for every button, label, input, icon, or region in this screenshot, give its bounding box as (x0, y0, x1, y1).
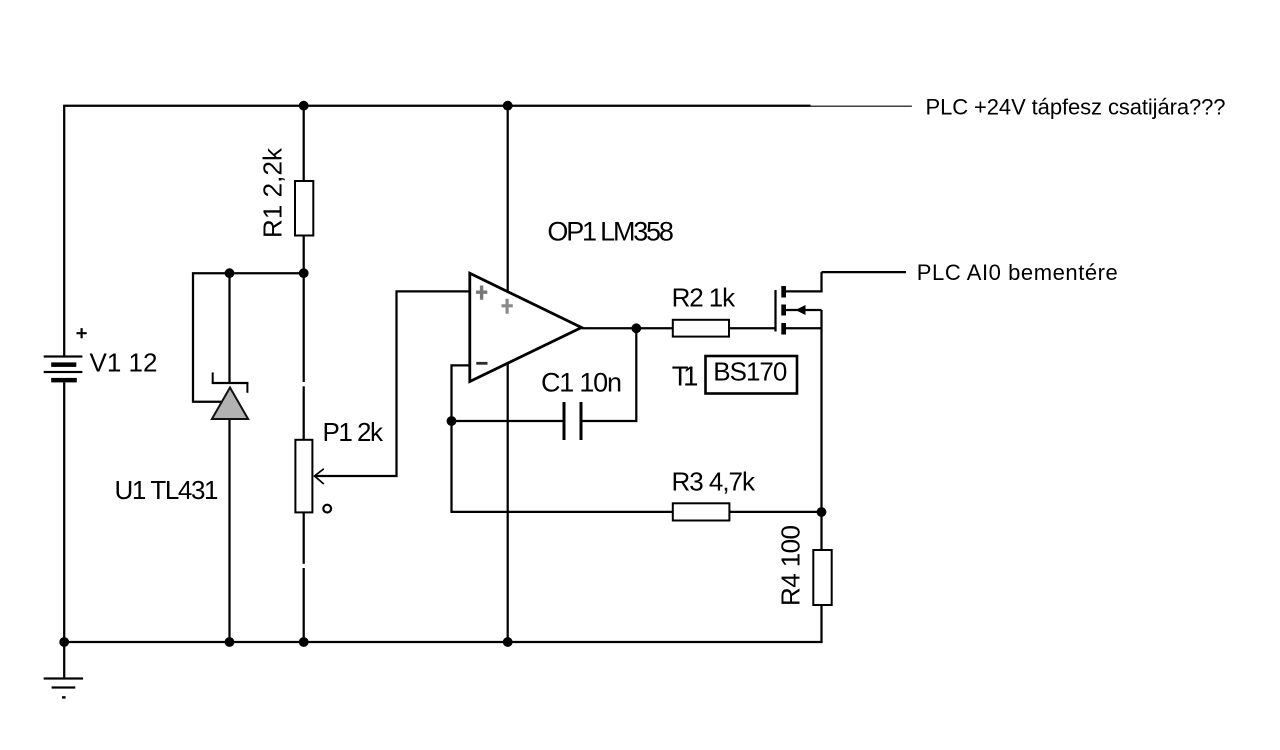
svg-text:R2 1k: R2 1k (672, 283, 737, 313)
svg-text:BS170: BS170 (713, 357, 787, 387)
svg-text:C1 10n: C1 10n (541, 368, 622, 398)
svg-text:U1 TL431: U1 TL431 (115, 475, 219, 505)
svg-text:PLC +24V tápfesz csatijára???: PLC +24V tápfesz csatijára??? (926, 95, 1226, 120)
svg-text:P1 2k: P1 2k (323, 417, 385, 447)
svg-text:V1 12: V1 12 (90, 347, 158, 377)
svg-text:OP1 LM358: OP1 LM358 (547, 216, 674, 246)
svg-text:PLC AI0 bementére: PLC AI0 bementére (917, 260, 1118, 285)
svg-text:R1 2,2k: R1 2,2k (258, 147, 288, 238)
svg-text:R3 4,7k: R3 4,7k (672, 466, 757, 496)
svg-text:R4 100: R4 100 (776, 525, 806, 606)
